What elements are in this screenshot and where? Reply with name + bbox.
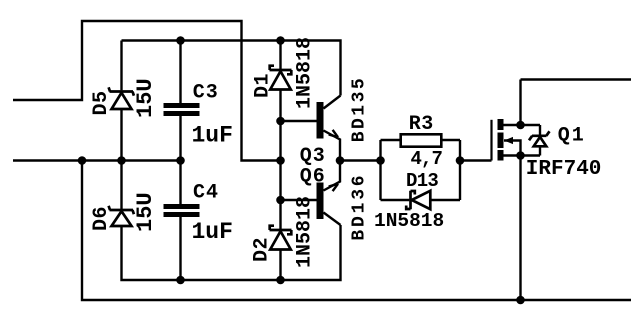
wire left branch down to bottom rail [82,161,631,301]
junction C4 bottom / low rail [176,276,185,285]
wire D5-D6 column middle [120,109,122,209]
svg-text:R3: R3 [409,113,434,136]
body diode of Q1 [529,131,550,146]
svg-text:Q1: Q1 [558,125,586,148]
svg-text:C3: C3 [193,82,219,105]
diode D5 (zener 15V) [109,87,134,109]
wire gate [460,159,492,161]
svg-text:4,7: 4,7 [411,148,443,170]
transistor Q6 BD136 [317,161,341,226]
svg-text:1N5818: 1N5818 [294,37,317,109]
svg-text:15U: 15U [133,192,158,232]
junction Q1 drain / body diode [516,121,525,130]
wire D1-D2 column [279,41,281,281]
svg-text:D6: D6 [90,206,113,231]
wire C3 column [179,41,181,161]
junction C3 top / top net [176,36,185,45]
svg-text:1N5818: 1N5818 [294,196,317,268]
wire top net [122,41,341,96]
svg-text:C4: C4 [193,182,219,205]
wire input1 top-left L path [13,21,281,161]
svg-text:15U: 15U [133,78,158,118]
wire C4 column [179,161,181,281]
svg-text:1N5818: 1N5818 [374,210,444,232]
junction D1 cathode / top net [276,36,285,45]
wire source rail [504,156,541,301]
resistor R3 [401,134,442,146]
node R3-D13 left [376,156,385,165]
wire Q3 base [281,120,317,122]
junction D2 cathode / Q6 base [276,196,285,205]
diode D13 (schottky 1N5818) [406,191,430,210]
wire R3 D13 right loop [431,140,461,200]
transistor Q3 BD135 [317,96,341,161]
svg-text:BD135: BD135 [350,76,370,143]
junction mid rail / D5-D6 column [117,156,126,165]
svg-text:D13: D13 [406,170,438,192]
svg-text:1uF: 1uF [192,123,233,149]
junction D1 anode / Q3 base [276,117,285,126]
svg-text:IRF740: IRF740 [526,158,602,181]
wire drain rail [504,80,632,126]
wire R3 D13 left loop [381,140,410,200]
junction mid rail / C3-C4 column [176,156,185,165]
diode D1 (schottky 1N5818) [270,66,292,90]
wire mid output row [340,159,381,161]
wire body diode branch [539,125,541,156]
svg-text:D5: D5 [90,90,113,115]
capacitor C4 [164,204,200,217]
node R3-D13 right [456,156,465,165]
junction Q1 source / bottom rail [516,296,525,305]
mosfet Q1 IRF740 [492,119,514,161]
junction input1 / base column [276,156,285,165]
wire D5 column upper [120,41,122,91]
svg-text:D2: D2 [251,237,274,262]
svg-text:Q6: Q6 [300,166,326,189]
junction Q1 source / body diode [516,151,525,160]
capacitor C3 [164,103,200,116]
junction D2 anode / low rail [276,276,285,285]
wire bulk link [504,141,521,156]
wire input2 mid rail [13,159,181,161]
diode D2 (schottky 1N5818) [270,226,292,250]
diode D6 (zener 15V) [109,206,134,226]
svg-text:BD136: BD136 [350,173,370,241]
wire Q6 base [281,199,317,201]
node emitter output [336,156,345,165]
svg-text:D1: D1 [252,73,275,98]
junction mid rail / left branch [78,156,87,165]
svg-text:1uF: 1uF [192,219,233,245]
wire D6 column lower + low rail [122,225,341,280]
